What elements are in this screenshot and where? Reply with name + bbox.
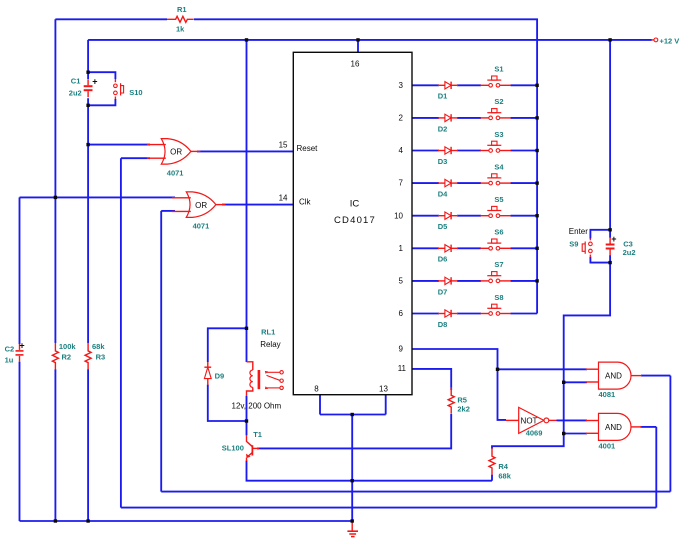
svg-text:8: 8 <box>314 385 319 394</box>
svg-text:5: 5 <box>399 277 404 286</box>
svg-text:D9: D9 <box>215 372 225 381</box>
svg-text:4: 4 <box>399 146 404 155</box>
resistor R5 <box>448 387 454 414</box>
resistor R1 <box>167 16 194 22</box>
resistor R4 <box>489 448 495 475</box>
svg-text:D2: D2 <box>438 124 448 133</box>
resistor R2 <box>52 343 58 370</box>
svg-text:D4: D4 <box>438 190 448 199</box>
node switch S6 bus junction <box>535 247 538 250</box>
wire left column V2 <box>54 19 56 521</box>
wire AND2 input2 <box>564 433 587 435</box>
op-amp U1 IC CD4017 body <box>279 52 412 394</box>
node Enter loop top <box>608 228 611 231</box>
svg-text:R1: R1 <box>177 5 187 14</box>
svg-text:RL1: RL1 <box>261 328 275 337</box>
svg-text:10: 10 <box>394 211 403 220</box>
svg-text:D7: D7 <box>438 287 448 296</box>
switch S6 <box>480 239 511 250</box>
capacitor C2 <box>16 344 24 362</box>
wire OR2 input1 <box>20 196 176 198</box>
svg-text:11: 11 <box>398 364 407 373</box>
svg-text:AND: AND <box>605 372 622 381</box>
wire IC pin7 row 4 <box>412 182 537 184</box>
svg-text:S8: S8 <box>494 293 503 302</box>
svg-text:14: 14 <box>279 194 288 203</box>
svg-text:Enter: Enter <box>569 227 588 236</box>
svg-text:1: 1 <box>399 244 404 253</box>
node Enter loop bottom <box>608 261 611 264</box>
diode D5 <box>438 212 458 219</box>
capacitor C1 <box>84 79 93 97</box>
switch S2 <box>480 109 511 120</box>
svg-text:D8: D8 <box>438 320 448 329</box>
svg-text:+: + <box>92 77 97 87</box>
svg-text:9: 9 <box>399 344 404 353</box>
node switch S5 bus junction <box>535 214 538 217</box>
svg-text:S1: S1 <box>494 65 503 74</box>
wire OR1 output to pin15 <box>197 150 293 152</box>
diode D1 <box>438 82 458 89</box>
node switch S3 bus junction <box>535 149 538 152</box>
node C1 bottom <box>86 104 89 107</box>
svg-text:S10: S10 <box>129 88 142 97</box>
node pins 8-13 junction <box>351 413 354 416</box>
svg-text:S2: S2 <box>494 97 503 106</box>
wire emitter to R4 bottom <box>247 461 493 481</box>
switch S3 <box>480 141 511 152</box>
node switch S2 bus junction <box>535 116 538 119</box>
wire +12V right column (V12) <box>492 40 610 481</box>
wire IC pin6 row 8 <box>412 313 537 315</box>
svg-text:4071: 4071 <box>193 221 210 230</box>
node bottom rail V2 <box>54 519 57 522</box>
gate AND1 4081 <box>586 362 642 389</box>
wire IC pin2 row 2 <box>412 117 537 119</box>
wire OR1 input1 <box>88 144 150 146</box>
wire OR2 output to pin14 <box>222 204 293 206</box>
svg-text:C1: C1 <box>71 76 81 85</box>
wire IC pin16 stub <box>357 40 359 52</box>
ground <box>347 521 358 537</box>
wire AND1 input2 <box>564 381 587 383</box>
node OR1 input1 junction <box>86 143 89 146</box>
wire IC pin4 row 3 <box>412 150 537 152</box>
svg-text:4001: 4001 <box>599 441 616 450</box>
diode D2 <box>438 114 458 121</box>
svg-text:+: + <box>19 340 24 350</box>
wire pin11 to R5 <box>412 369 451 390</box>
switch S10 <box>114 79 124 99</box>
svg-text:68k: 68k <box>92 342 105 351</box>
svg-text:+12 V: +12 V <box>660 37 680 46</box>
svg-text:S6: S6 <box>494 228 503 237</box>
gate OR1 4071 <box>147 139 201 165</box>
wire Enter/C3 loop <box>590 230 610 263</box>
svg-text:13: 13 <box>379 385 388 394</box>
svg-text:Relay: Relay <box>260 340 280 349</box>
wire pin9 to gates (V9) <box>412 349 506 420</box>
node C1 top <box>86 71 89 74</box>
svg-text:16: 16 <box>351 60 360 69</box>
svg-text:1u: 1u <box>5 355 14 364</box>
svg-text:D5: D5 <box>438 222 448 231</box>
node pin16 junction <box>356 38 359 41</box>
switch S9 <box>582 239 592 257</box>
wire column V3 (C1/R3 branch) <box>87 40 89 521</box>
svg-text:D6: D6 <box>438 255 448 264</box>
wire IC pin1 row 6 <box>412 247 537 249</box>
node switch S1 bus junction <box>535 84 538 87</box>
svg-text:2: 2 <box>399 114 404 123</box>
svg-text:68k: 68k <box>498 471 511 480</box>
wire AND2 loop bottom <box>121 507 656 509</box>
node switch S7 bus junction <box>535 279 538 282</box>
wire IC pin10 row 5 <box>412 215 537 217</box>
wire bottom ground rail <box>20 520 353 522</box>
relay RL1 <box>247 362 284 396</box>
svg-text:IC: IC <box>350 199 360 210</box>
capacitor C3 <box>606 238 615 256</box>
node AND2 input2 junction <box>562 432 565 435</box>
svg-text:2u2: 2u2 <box>69 88 82 97</box>
gate OR2 4071 <box>172 192 226 218</box>
node top rail / relay column <box>245 38 248 41</box>
svg-text:CD4017: CD4017 <box>334 215 376 226</box>
node +12V / right column <box>608 38 611 41</box>
svg-text:R2: R2 <box>62 353 72 362</box>
svg-text:1k: 1k <box>176 25 185 34</box>
node AND1 input1 junction <box>496 368 499 371</box>
svg-text:3: 3 <box>399 81 404 90</box>
wire R5 bottom to base line <box>257 414 451 448</box>
resistor R3 <box>85 343 91 370</box>
svg-text:Clk: Clk <box>299 197 312 206</box>
svg-text:15: 15 <box>279 141 288 150</box>
node bottom rail V3 <box>86 519 89 522</box>
svg-text:4081: 4081 <box>599 390 616 399</box>
svg-text:S5: S5 <box>494 195 503 204</box>
svg-text:R3: R3 <box>96 353 106 362</box>
svg-text:OR: OR <box>195 201 207 210</box>
wire far-left column V1 <box>19 197 21 521</box>
svg-text:S9: S9 <box>569 239 578 248</box>
svg-text:SL100: SL100 <box>222 444 244 453</box>
wire feedback column V5 <box>160 211 162 492</box>
wire feedback column V4 <box>120 158 122 507</box>
diode D9 <box>204 362 211 385</box>
svg-text:OR: OR <box>170 148 182 157</box>
svg-text:AND: AND <box>605 423 622 432</box>
wire OR2 input2 <box>161 210 175 212</box>
wire IC pin3 row 1 <box>412 84 537 86</box>
wire OR1 input2 <box>121 157 150 159</box>
node AND1 input2 junction <box>562 381 565 384</box>
svg-text:Reset: Reset <box>297 144 319 153</box>
+12V terminal <box>652 38 658 42</box>
gate AND2 4001 <box>586 413 642 440</box>
svg-text:T1: T1 <box>253 430 262 439</box>
svg-text:2u2: 2u2 <box>623 248 636 257</box>
diode D7 <box>438 277 458 284</box>
switch S4 <box>480 174 511 185</box>
wire top rail (R1 net) <box>55 19 537 313</box>
svg-text:+: + <box>611 234 616 244</box>
wire +12V rail <box>88 39 652 41</box>
node emitter / ground column <box>351 479 354 482</box>
svg-text:C3: C3 <box>623 239 633 248</box>
wire D9 branch <box>208 328 247 421</box>
node ground junction <box>351 519 354 522</box>
svg-text:R5: R5 <box>457 395 467 404</box>
wire ground column V7 <box>351 415 353 522</box>
switch S7 <box>480 272 511 283</box>
wire column to relay (V6) <box>246 40 248 436</box>
switch S8 <box>480 304 511 315</box>
wire IC pin5 row 7 <box>412 280 537 282</box>
node switch S4 bus junction <box>535 181 538 184</box>
wire AND1 output <box>641 375 670 377</box>
svg-text:6: 6 <box>399 309 404 318</box>
transistor T1 SL100 <box>246 435 259 461</box>
wire NOT output to AND2 input1 <box>557 419 588 421</box>
svg-text:R4: R4 <box>498 462 508 471</box>
wire AND1 input1 <box>498 368 588 370</box>
wire AND1 loop right column <box>669 376 671 492</box>
diode D3 <box>438 147 458 154</box>
svg-text:NOT: NOT <box>521 416 538 425</box>
svg-text:D1: D1 <box>438 92 448 101</box>
svg-text:4069: 4069 <box>526 428 543 437</box>
node relay top / D9 <box>245 327 248 330</box>
node OR2 input1 junction <box>54 196 57 199</box>
wire AND2 output <box>641 426 657 428</box>
svg-text:C2: C2 <box>5 345 15 354</box>
svg-text:100k: 100k <box>59 342 77 351</box>
svg-text:S3: S3 <box>494 130 503 139</box>
svg-text:S7: S7 <box>494 260 503 269</box>
diode D6 <box>438 245 458 252</box>
diode D8 <box>438 310 458 317</box>
svg-text:4071: 4071 <box>167 169 184 178</box>
wire C1/S10 loop <box>88 72 115 105</box>
svg-text:2k2: 2k2 <box>457 404 470 413</box>
svg-text:S4: S4 <box>494 162 504 171</box>
switch S1 <box>480 76 511 87</box>
svg-text:7: 7 <box>399 179 404 188</box>
gate NOT 4069 <box>506 407 557 433</box>
svg-text:D3: D3 <box>438 157 448 166</box>
diode D4 <box>438 179 458 186</box>
wire AND1 loop bottom <box>161 491 670 493</box>
svg-text:12v, 200 Ohm: 12v, 200 Ohm <box>232 401 282 410</box>
wire IC pins 8/13 join <box>320 395 386 415</box>
node relay bottom / D9 <box>245 419 248 422</box>
switch S5 <box>480 206 511 217</box>
wire AND2 loop right column <box>655 427 657 508</box>
